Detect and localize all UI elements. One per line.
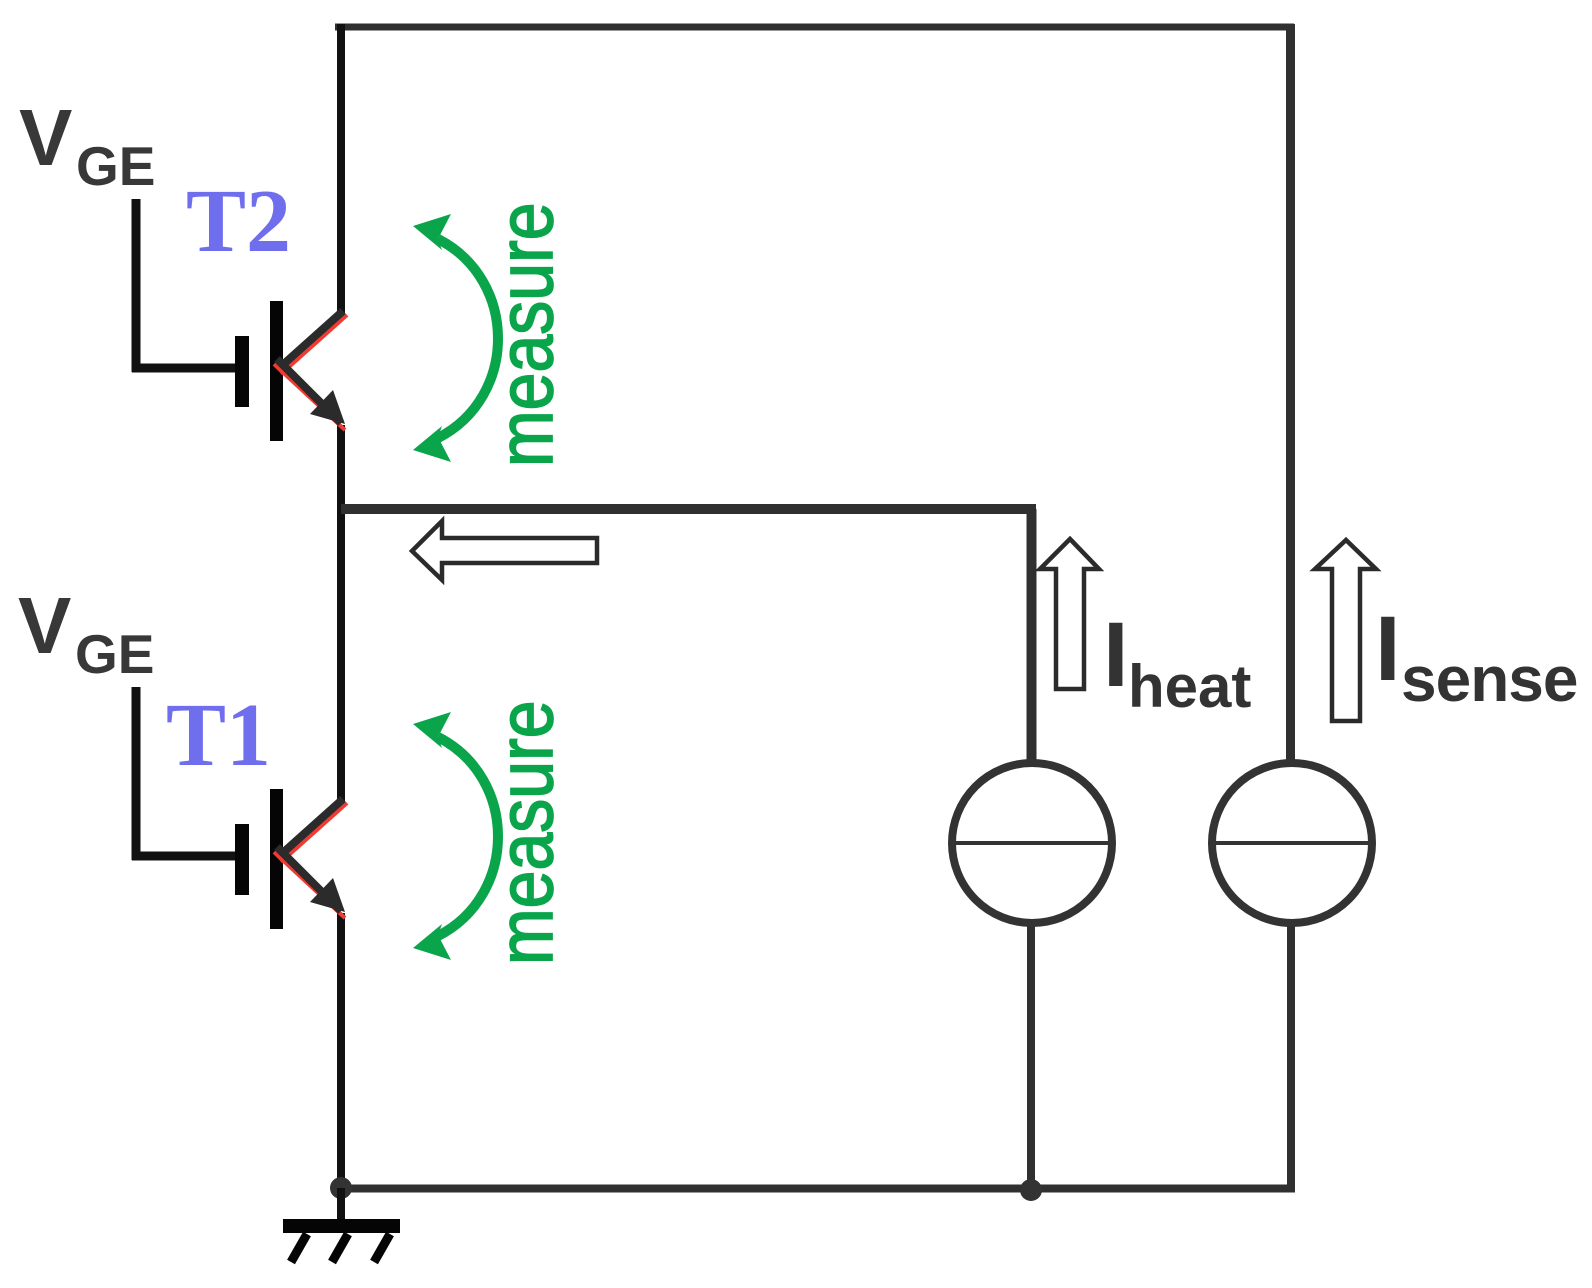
open arrow up I_heat (1040, 539, 1099, 689)
wire I_heat branch vertical lower (1027, 923, 1035, 1192)
T2 emitter red highlight (274, 364, 345, 430)
svg-text:T1: T1 (166, 686, 271, 785)
svg-text:I: I (1103, 604, 1129, 706)
T1 gate bar (235, 824, 249, 895)
wire left bus middle (T2 emitter to T1 collector) (337, 425, 345, 801)
junction dot at left bus / bottom wire (330, 1177, 352, 1199)
wire left bus lower (T1 emitter to bottom) (337, 913, 345, 1192)
svg-text:I: I (1375, 598, 1401, 700)
measure arc for T2 (438, 239, 498, 438)
T1 emitter arrowhead (310, 878, 345, 912)
current source I_heat circle (952, 763, 1112, 923)
T2 collector red highlight (281, 315, 347, 374)
svg-text:measure: measure (482, 202, 570, 467)
measure arrowhead top (T2) (413, 214, 451, 250)
T1 emitter line (277, 847, 341, 911)
T2 emitter arrowhead (310, 390, 345, 424)
junction dot at I_heat branch / bottom wire (1020, 1179, 1042, 1201)
transistor T2 (132, 199, 347, 441)
T2 body bar (270, 301, 283, 441)
svg-text:sense: sense (1401, 643, 1577, 715)
svg-text:V: V (19, 93, 72, 182)
T2 gate lead vertical (132, 199, 141, 372)
T2 collector line (277, 311, 343, 370)
T1 emitter red highlight (274, 852, 345, 918)
svg-text:V: V (18, 581, 71, 670)
svg-text:measure: measure (482, 700, 570, 965)
measure arrowhead bottom (T1) (413, 924, 451, 960)
svg-text:GE: GE (76, 135, 155, 197)
wire bottom horizontal (341, 1185, 1295, 1193)
T2 gate lead horizontal (132, 364, 235, 373)
T2 gate bar (235, 336, 249, 407)
T1 body bar (270, 789, 283, 929)
wire I_heat branch vertical upper (1027, 509, 1037, 765)
T1 collector line (277, 799, 343, 858)
ground (283, 1188, 400, 1262)
measure arc for T1 (438, 737, 498, 936)
wire right bus upper (1286, 24, 1295, 765)
open arrow up I_sense (1315, 540, 1376, 721)
svg-text:GE: GE (75, 623, 154, 685)
T1 gate lead vertical (132, 687, 141, 860)
T1 gate lead horizontal (132, 852, 235, 861)
svg-text:heat: heat (1128, 653, 1251, 720)
wire top horizontal (335, 24, 1294, 31)
transistor T1 (132, 687, 347, 929)
wire left bus upper (to T2 collector) (337, 24, 345, 313)
current source I_sense circle (1212, 763, 1372, 923)
open arrow pointing left on middle wire (412, 521, 597, 580)
measure arrowhead bottom (T2) (413, 426, 451, 462)
T1 collector red highlight (281, 803, 347, 862)
measure arrowhead top (T1) (413, 712, 451, 748)
wire middle horizontal (node between T1 and T2) (341, 504, 1036, 514)
svg-text:T2: T2 (186, 172, 291, 271)
T2 emitter line (277, 359, 341, 423)
wire right bus lower (1287, 923, 1295, 1188)
